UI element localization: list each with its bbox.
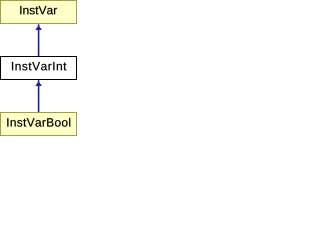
class box InstVar [1,1,77,24]
inheritance arrow InstVarInt to InstVar: head [35,25,42,30]
background [0,0,77,136]
label InstVarBool [7,118,70,127]
label InstVar [20,6,57,14]
inheritance arrow InstVarBool to InstVarInt: shaft [38,80,40,112]
inheritance arrow InstVarInt to InstVar: shaft [38,24,40,56]
label InstVarInt [12,62,66,70]
class box InstVarBool [1,113,77,136]
class box InstVarInt [1,57,77,80]
inheritance arrow InstVarBool to InstVarInt: head [35,81,42,86]
